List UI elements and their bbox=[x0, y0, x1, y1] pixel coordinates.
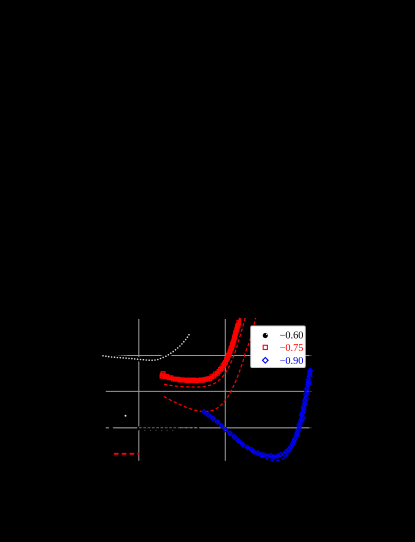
svg-text:−0.75: −0.75 bbox=[280, 343, 304, 354]
svg-text:−0.60: −0.60 bbox=[280, 330, 304, 341]
svg-text:−0.90: −0.90 bbox=[280, 356, 304, 367]
